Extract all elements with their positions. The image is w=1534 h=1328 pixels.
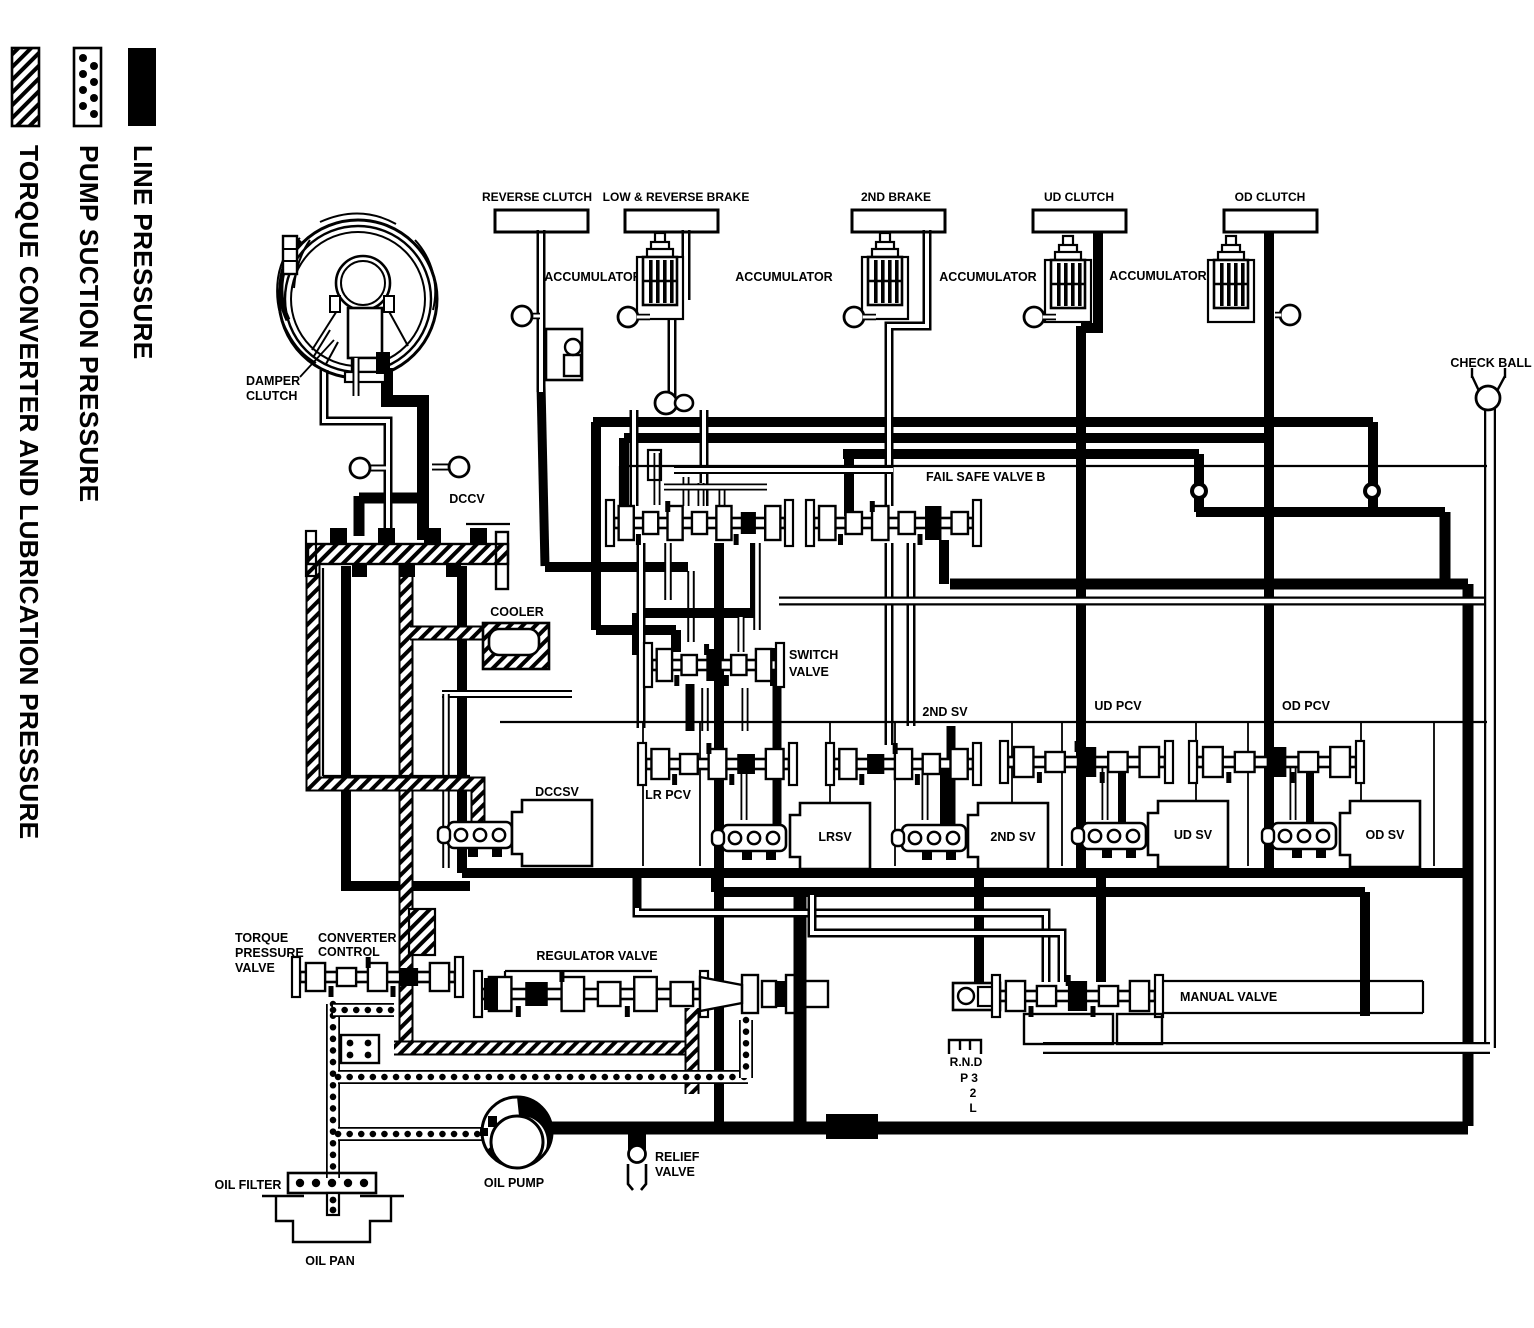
stub ball 4 bbox=[1275, 312, 1281, 319]
DCCV land low bbox=[352, 563, 367, 577]
pipe: switch valve drain bbox=[701, 688, 709, 731]
wire: 2ND PCV feed drop bbox=[947, 726, 956, 835]
pipe: drop3 bbox=[719, 489, 726, 506]
fail safe valve B spool bbox=[806, 500, 981, 546]
oil pump bbox=[482, 1097, 552, 1167]
pipe: accumulator to junction balls bbox=[668, 319, 677, 396]
wire: right side vertical bbox=[1463, 584, 1474, 1126]
junction circles under low&reverse accumulator bbox=[655, 392, 677, 414]
wire: G down to pipe corner bbox=[633, 873, 642, 908]
pipe: 2nd brake feed down to fail safe B bbox=[889, 230, 927, 506]
ball left of accumulator 3 bbox=[1024, 307, 1044, 327]
ball on DCCV inlet left bbox=[350, 458, 370, 478]
DCCV land bbox=[330, 528, 347, 545]
stub ball 2 bbox=[863, 314, 876, 321]
dotted pipe: suction long upper bbox=[338, 1070, 748, 1084]
svg-text:P 3: P 3 bbox=[960, 1071, 978, 1085]
legend: torque converter & lubrication pressure bar (hatched) bbox=[12, 48, 39, 126]
stub ball 3 bbox=[1043, 314, 1056, 321]
svg-text:CONVERTER: CONVERTER bbox=[318, 931, 396, 945]
svg-text:ACCUMULATOR: ACCUMULATOR bbox=[939, 270, 1036, 284]
accumulator low&reverse bbox=[637, 233, 683, 319]
inner frame line bottom bbox=[323, 775, 470, 777]
DCCV land low bbox=[446, 563, 461, 577]
svg-text:DAMPER: DAMPER bbox=[246, 374, 300, 388]
frame: solenoid row top bbox=[500, 721, 1487, 723]
pipe: 2ND PCV to 2ND SV bbox=[922, 764, 929, 820]
switch valve spool bbox=[644, 643, 784, 687]
wire: OD clutch long drop bbox=[1264, 232, 1274, 873]
pipe: fail safe A right drain bbox=[753, 543, 761, 630]
manual valve bore right end bbox=[1422, 981, 1424, 1013]
torque converter outline bbox=[277, 213, 437, 382]
pipe: fail safe A drain 2 bbox=[664, 543, 672, 600]
pipe: drop1 bbox=[683, 477, 690, 506]
wire: bottom header I from oil pump bbox=[550, 1122, 1468, 1135]
accumulator 2nd brake bbox=[862, 233, 908, 319]
pipe: E to switch valve bbox=[738, 617, 745, 652]
cooler bbox=[483, 623, 549, 669]
pipe: long horizontal below fail safe B bbox=[779, 597, 1488, 606]
ball left of accumulator 2 bbox=[844, 307, 864, 327]
manual valve left box bbox=[953, 983, 1000, 1010]
DCCV land bbox=[470, 528, 487, 545]
svg-text:PUMP SUCTION PRESSURE: PUMP SUCTION PRESSURE bbox=[74, 145, 104, 502]
tc black detail bbox=[376, 352, 390, 374]
svg-text:UD PCV: UD PCV bbox=[1094, 699, 1142, 713]
accumulator ud bbox=[1045, 236, 1091, 322]
frame partition bbox=[1195, 722, 1197, 866]
pipe: DCCSV section left bbox=[442, 694, 450, 868]
hatched pipe: branch to cooler bbox=[410, 626, 486, 641]
wire: bottom header H bbox=[716, 887, 1365, 897]
wire: header D bbox=[950, 579, 1468, 590]
svg-text:CHECK BALL: CHECK BALL bbox=[1450, 356, 1532, 370]
ball right of accumulator 4 bbox=[1280, 305, 1300, 325]
pipe: to manual valve top a bbox=[637, 908, 1046, 982]
wire: relief valve stub bbox=[633, 1133, 642, 1140]
wire: jog header between elbows bbox=[1196, 507, 1445, 517]
frame: fail-safe box top bbox=[620, 465, 1487, 467]
wire: long drop to bottom header through regulator bbox=[714, 543, 724, 1126]
wire: bottom header G bbox=[462, 868, 1468, 878]
wire: DCCV branch horizontal bbox=[359, 493, 427, 504]
wire: DCCV branch vertical bbox=[354, 496, 365, 536]
manual valve spool bbox=[992, 975, 1163, 1017]
frame partition bbox=[1433, 722, 1435, 866]
dotted pipe: suction riser bbox=[326, 1004, 340, 1178]
manual valve bore bottom rail bbox=[1155, 1012, 1423, 1014]
pipe: LR PCV to LRSV bbox=[741, 764, 748, 820]
svg-text:OIL FILTER: OIL FILTER bbox=[215, 1178, 282, 1192]
switch valve right end land bbox=[770, 648, 784, 686]
wire: switch valve drain down bbox=[686, 684, 695, 731]
pipe: cross line above fail safe valves bbox=[674, 466, 893, 474]
frame partition bbox=[1011, 722, 1013, 866]
hatched block at converter control bbox=[409, 909, 435, 955]
wire: drop to manual valve bbox=[974, 873, 984, 982]
DCCV left flange bbox=[306, 531, 316, 576]
wire: header B2 bbox=[843, 449, 1199, 459]
pipe: junction to fail safe valve A right bbox=[700, 410, 709, 506]
box REVERSE CLUTCH bbox=[495, 210, 588, 232]
wire: torque converter to DCCV (line pressure) bbox=[387, 368, 423, 540]
svg-text:OIL PAN: OIL PAN bbox=[305, 1254, 355, 1268]
pipe: torque converter left to DCCV bbox=[324, 370, 388, 537]
legend: pump suction pressure bar (dotted) bbox=[74, 48, 101, 126]
hatched pipe: bottom lube header bbox=[394, 1041, 692, 1056]
ball left of accumulator 1 bbox=[618, 307, 638, 327]
svg-text:LINE PRESSURE: LINE PRESSURE bbox=[128, 145, 158, 359]
svg-text:TORQUE CONVERTER AND LUBRICATI: TORQUE CONVERTER AND LUBRICATION PRESSUR… bbox=[14, 145, 44, 839]
manual valve bore top rail bbox=[1155, 980, 1423, 982]
svg-text:TORQUE: TORQUE bbox=[235, 931, 288, 945]
wire: header C bbox=[545, 562, 688, 572]
pipe: low&reverse brake feed right bbox=[682, 230, 691, 300]
damper clutch leader bbox=[300, 340, 334, 377]
ball on DCCV inlet right bbox=[449, 457, 469, 477]
box UD CLUTCH bbox=[1033, 210, 1126, 232]
wire: UD long drop bbox=[1076, 326, 1086, 873]
svg-text:VALVE: VALVE bbox=[789, 665, 829, 679]
regulator valve spool bbox=[474, 971, 708, 1017]
small component above fail safe A bbox=[648, 450, 661, 480]
svg-text:2ND SV: 2ND SV bbox=[990, 830, 1036, 844]
wire: bottom-left link bbox=[341, 881, 470, 891]
hatched pipe: left lube frame to DCCSV bbox=[313, 560, 478, 822]
regulator left black land bbox=[484, 978, 498, 1010]
svg-text:ACCUMULATOR: ACCUMULATOR bbox=[544, 270, 641, 284]
svg-text:ACCUMULATOR: ACCUMULATOR bbox=[735, 270, 832, 284]
junction ball at header A elbow bbox=[1363, 482, 1381, 500]
stub to reverse ball bbox=[530, 313, 540, 320]
UD PCV spool bbox=[1000, 741, 1173, 783]
svg-text:DCCSV: DCCSV bbox=[535, 785, 579, 799]
pipe: stub to ball right bbox=[432, 464, 450, 471]
pipe: 2nd brake line to 2ND PCV bbox=[885, 543, 894, 745]
wire: header B1 bbox=[624, 433, 1271, 443]
junction blob on bottom header bbox=[826, 1114, 878, 1139]
wire: UD SV link bbox=[1118, 770, 1126, 828]
manual valve lower box 2 bbox=[1117, 1014, 1162, 1044]
frame partition bbox=[1061, 722, 1063, 866]
frame partition bbox=[642, 722, 644, 866]
torque pressure / converter control spool bbox=[292, 957, 463, 997]
box OD CLUTCH bbox=[1224, 210, 1317, 232]
solenoid UD SV bbox=[1072, 801, 1228, 867]
svg-text:LR PCV: LR PCV bbox=[645, 788, 692, 802]
svg-text:REVERSE CLUTCH: REVERSE CLUTCH bbox=[482, 190, 592, 204]
stub ball 1 bbox=[637, 314, 650, 321]
wire: B1 left elbow down to fail safe valve A bbox=[619, 438, 629, 505]
dotted box near converter control bbox=[341, 1035, 379, 1063]
wire: B2 drop to fail safe valve B bbox=[844, 454, 854, 516]
pipe tc shaft left bbox=[353, 358, 360, 396]
wire: drop to manual valve 2 bbox=[1096, 873, 1106, 982]
oil pan bbox=[276, 1196, 391, 1242]
pipe: DCCSV section top bbox=[442, 690, 572, 698]
pipe: fail safe A drain bbox=[637, 543, 646, 728]
pipe: fail safe B drain bbox=[907, 543, 916, 726]
oil filter bbox=[288, 1173, 376, 1193]
svg-text:UD SV: UD SV bbox=[1174, 828, 1213, 842]
pipe: nested cross pipe bbox=[664, 484, 767, 491]
svg-text:CLUTCH: CLUTCH bbox=[246, 389, 297, 403]
wire: header F bbox=[596, 625, 676, 635]
svg-text:OD CLUTCH: OD CLUTCH bbox=[1235, 190, 1306, 204]
pipe: check ball line down right side bbox=[1484, 404, 1496, 1048]
wire: G-H link bbox=[711, 873, 721, 892]
wire: DCCV left drop to bottom header bbox=[346, 566, 466, 886]
ball on reverse clutch line bbox=[512, 306, 532, 326]
legend: line pressure bar (solid) bbox=[128, 48, 156, 126]
wire: H drop to manual valve right bbox=[1360, 892, 1370, 1016]
svg-text:VALVE: VALVE bbox=[655, 1165, 695, 1179]
solenoid OD SV bbox=[1262, 801, 1420, 867]
DCCV land low bbox=[400, 563, 415, 577]
manual valve lower box 1 bbox=[1024, 1014, 1113, 1044]
hatched pipe: right lube drop at regulator bbox=[685, 1008, 700, 1094]
svg-text:L: L bbox=[969, 1101, 976, 1115]
svg-text:SWITCH: SWITCH bbox=[789, 648, 838, 662]
svg-text:RELIEF: RELIEF bbox=[655, 1150, 700, 1164]
frame: fail-safe box left bbox=[619, 466, 621, 540]
wire: header A (top) bbox=[593, 417, 1373, 427]
svg-text:LRSV: LRSV bbox=[818, 830, 852, 844]
svg-text:REGULATOR VALVE: REGULATOR VALVE bbox=[536, 949, 657, 963]
svg-text:2: 2 bbox=[970, 1086, 977, 1100]
wire: wide drop to bottom header bbox=[794, 892, 807, 1126]
pipe: drop2 bbox=[698, 483, 705, 506]
LR PCV spool bbox=[638, 743, 797, 785]
solenoid 2ND SV bbox=[892, 803, 1048, 869]
svg-text:COOLER: COOLER bbox=[490, 605, 543, 619]
wire: UD jog bbox=[1081, 323, 1103, 333]
wire: drop to header D bbox=[1440, 512, 1451, 584]
hatched pipe: DCCV down to lube header bbox=[399, 560, 414, 1044]
wire: LR PCV feed drop bbox=[773, 655, 782, 829]
svg-text:DCCV: DCCV bbox=[449, 492, 485, 506]
svg-text:FAIL SAFE VALVE B: FAIL SAFE VALVE B bbox=[926, 470, 1045, 484]
dotted pipe: suction top elbow bbox=[333, 1003, 394, 1017]
DCCV land bbox=[378, 528, 395, 545]
pipe: switch valve drain 2 bbox=[742, 688, 749, 731]
solenoid DCCSV bbox=[438, 800, 592, 866]
wire: F end into switch valve bbox=[671, 630, 681, 652]
OD PCV spool bbox=[1189, 741, 1364, 783]
frame partition bbox=[699, 722, 701, 866]
svg-text:OD PCV: OD PCV bbox=[1282, 699, 1331, 713]
fail safe valve A spool bbox=[606, 500, 793, 546]
pipe: small drop above fail safe A bbox=[654, 453, 661, 505]
junction ball at header B elbow bbox=[1190, 482, 1208, 500]
DCCV land bbox=[424, 528, 441, 545]
relief valve bbox=[628, 1134, 646, 1151]
wire: E left drop into switch valve bbox=[632, 613, 642, 655]
pipe: reverse clutch feed bbox=[537, 230, 546, 392]
DCCV valve spool (hatched) bbox=[308, 544, 508, 564]
svg-text:VALVE: VALVE bbox=[235, 961, 275, 975]
dotted pipe: suction to oil pump bbox=[338, 1127, 492, 1141]
wire: A left drop bbox=[591, 422, 601, 630]
dotted pipe: regulator spring seat bbox=[739, 1020, 753, 1078]
svg-text:MANUAL VALVE: MANUAL VALVE bbox=[1180, 990, 1277, 1004]
frame partition bbox=[1360, 722, 1362, 866]
frame partition bbox=[829, 722, 831, 866]
wire: header E bbox=[637, 608, 755, 618]
svg-text:R.N.D: R.N.D bbox=[950, 1055, 983, 1069]
inner frame line left bbox=[322, 568, 324, 776]
svg-text:OIL PUMP: OIL PUMP bbox=[484, 1176, 544, 1190]
frame partition bbox=[894, 722, 896, 866]
svg-text:OD SV: OD SV bbox=[1366, 828, 1406, 842]
wire: UD clutch drop bbox=[1093, 232, 1103, 328]
pipe: stub to ball left bbox=[370, 465, 386, 472]
wire: DCCV right drop bbox=[457, 566, 467, 873]
pipe: OD PCV to OD SV bbox=[1290, 762, 1297, 820]
pipe: C end down to switch valve bbox=[687, 571, 695, 642]
wire: fail safe B to header D bbox=[939, 540, 949, 584]
wire: OD SV link bbox=[1306, 770, 1314, 828]
svg-text:LOW & REVERSE BRAKE: LOW & REVERSE BRAKE bbox=[603, 190, 750, 204]
wire: reverse clutch lower drop bbox=[541, 385, 545, 566]
2ND PCV spool bbox=[826, 743, 981, 785]
frame partition bbox=[1247, 722, 1249, 866]
accumulator od bbox=[1208, 236, 1254, 322]
wire: fail safe A right drop to E bbox=[750, 543, 760, 617]
pipe: to manual valve top b bbox=[812, 895, 1062, 982]
box 2ND BRAKE bbox=[852, 210, 945, 232]
svg-text:UD CLUTCH: UD CLUTCH bbox=[1044, 190, 1114, 204]
pipe: UD PCV to UD SV bbox=[1102, 762, 1109, 820]
pipe: bottom frame pair to manual valve bbox=[1043, 1042, 1490, 1054]
svg-text:2ND SV: 2ND SV bbox=[922, 705, 968, 719]
wire: 2ND SV link bbox=[940, 770, 948, 833]
svg-text:CONTROL: CONTROL bbox=[318, 945, 380, 959]
solenoid LRSV bbox=[712, 803, 870, 869]
DCCV right flange bbox=[496, 532, 508, 589]
check valve under reverse clutch line bbox=[546, 329, 582, 380]
box LOW &#38; REVERSE BRAKE bbox=[625, 210, 718, 232]
svg-text:ACCUMULATOR: ACCUMULATOR bbox=[1109, 269, 1206, 283]
pipe: junction to fail safe valve A left bbox=[630, 410, 639, 506]
wire: B2 right elbow down bbox=[1194, 454, 1204, 512]
wire: A right elbow down bbox=[1368, 422, 1378, 512]
svg-text:2ND BRAKE: 2ND BRAKE bbox=[861, 190, 931, 204]
shift gate R.N.D bbox=[949, 1040, 981, 1054]
